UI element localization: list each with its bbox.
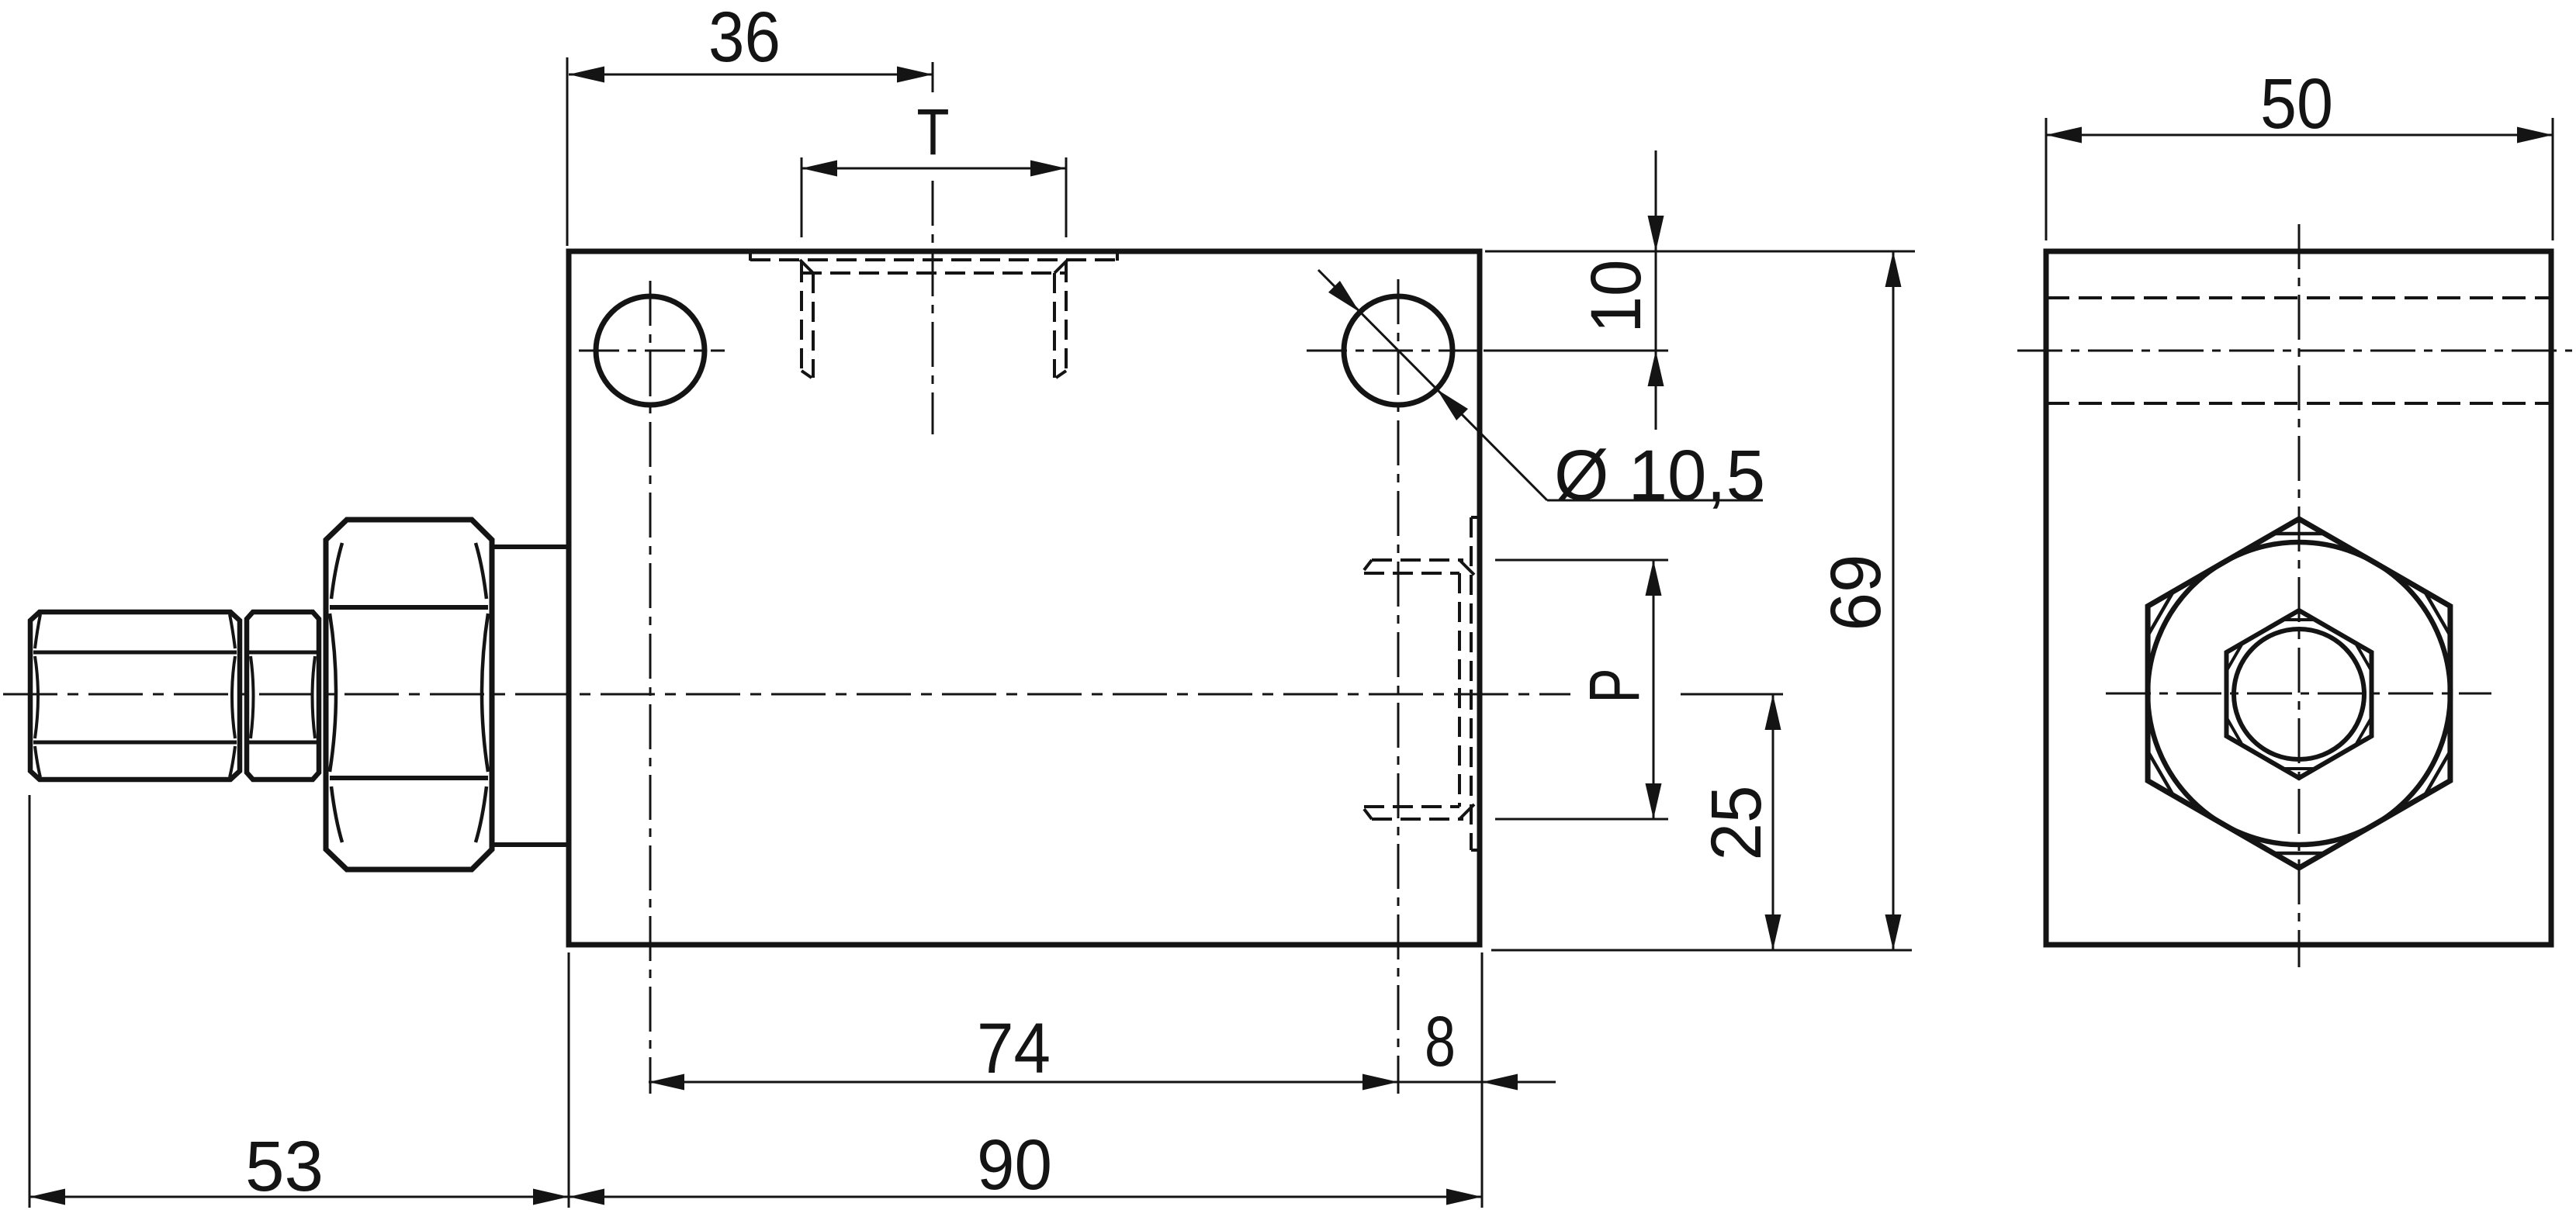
- valve body front view outline: [569, 251, 1480, 945]
- jam hex segment: [247, 612, 319, 780]
- dimension 25: [1491, 694, 1912, 950]
- svg-text:25: 25: [1697, 786, 1776, 861]
- dimension 10: [1484, 150, 1915, 430]
- svg-text:10: 10: [1577, 260, 1656, 334]
- svg-text:8: 8: [1425, 1002, 1456, 1081]
- hex plug outer hexagon: [2148, 519, 2450, 868]
- dimension 50 (side view): [2046, 118, 2553, 240]
- port T vertical centerline: [932, 181, 934, 434]
- hex socket hexagon: [2227, 610, 2372, 778]
- side view vertical centerline: [2298, 224, 2301, 967]
- outer hexagon corner chamfer marks: [2148, 534, 2451, 853]
- dimensions 74 and 8: [649, 1081, 1556, 1084]
- side view plug horizontal centerline: [2106, 693, 2491, 695]
- dimensions 53 and 90: [29, 795, 1482, 1208]
- large hex nut: [326, 520, 492, 869]
- dimension 36: [567, 57, 933, 246]
- port P hidden outline (tapped hole from right face): [1364, 517, 1479, 850]
- side view mounting hole axis centerline: [2017, 350, 2572, 352]
- svg-text:90: 90: [977, 1125, 1052, 1205]
- adjusting screw long hex (locknut): [30, 612, 240, 780]
- side view hidden mounting hole lines: [2046, 298, 2551, 403]
- leader and label Ø 10,5: [1318, 270, 1763, 500]
- mounting hole left vertical centerline (extends to 74-dimension): [649, 281, 652, 1094]
- mounting hole left: [596, 296, 705, 405]
- dimension T port width: [802, 157, 1066, 237]
- svg-text:74: 74: [977, 1009, 1051, 1088]
- washer / boss between nut and body: [492, 547, 567, 845]
- svg-text:69: 69: [1816, 555, 1896, 631]
- long hex chamfer arcs: [35, 614, 235, 777]
- svg-text:53: 53: [245, 1127, 324, 1206]
- socket hexagon corner chamfer marks: [2228, 620, 2370, 769]
- mounting hole right horizontal centerline: [1307, 350, 1478, 352]
- side view body outline: [2046, 251, 2551, 945]
- svg-text:50: 50: [2260, 64, 2333, 143]
- dimension P port height: [1495, 560, 1668, 819]
- svg-text:T: T: [917, 95, 950, 168]
- mounting hole right vertical centerline (extends to 74-dimension): [1397, 279, 1400, 1094]
- port T hidden outline (tapped hole from top face): [750, 252, 1117, 378]
- svg-text:36: 36: [708, 0, 781, 77]
- main horizontal centerline (bolt / port P axis): [3, 693, 1570, 696]
- mounting hole right: [1344, 296, 1452, 405]
- hex plug chamfer circle: [2148, 542, 2450, 845]
- svg-text:P: P: [1575, 669, 1654, 704]
- mounting hole left horizontal centerline: [579, 350, 725, 352]
- large nut chamfer arcs: [330, 543, 488, 842]
- svg-text:Ø 10,5: Ø 10,5: [1554, 436, 1765, 515]
- dimension 69: [1892, 251, 1895, 950]
- hex socket circle: [2234, 629, 2364, 759]
